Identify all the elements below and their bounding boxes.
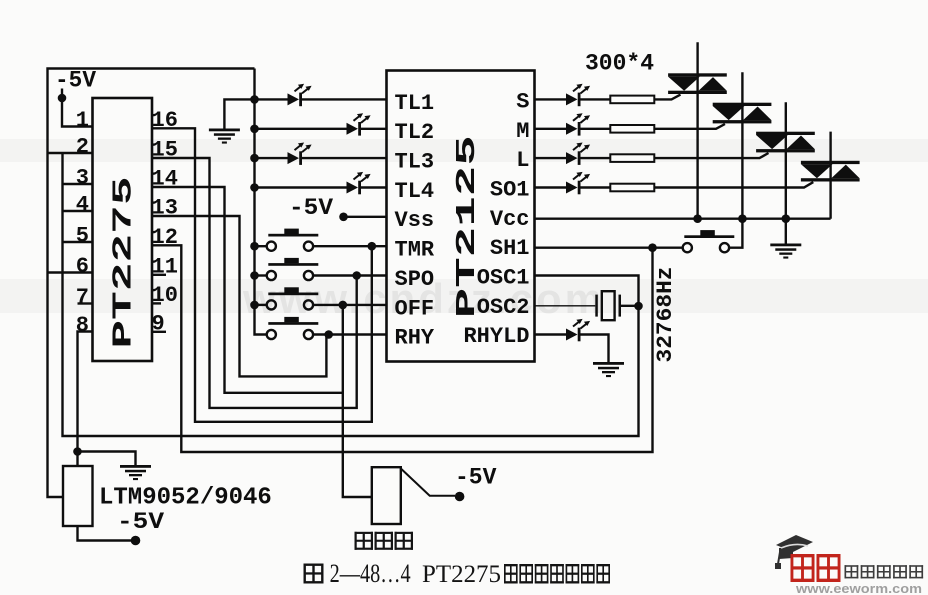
wire buzzer lead to -5V dot bbox=[401, 469, 455, 496]
svg-text:TL4: TL4 bbox=[395, 179, 435, 204]
svg-text:8: 8 bbox=[76, 313, 89, 338]
wire TL4 row left bbox=[255, 186, 347, 188]
svg-text:OFF: OFF bbox=[395, 296, 435, 321]
wire Vcc bus bbox=[535, 217, 831, 219]
wire SO1 row to LED bbox=[535, 186, 567, 188]
resistor R2 300 bbox=[610, 125, 654, 133]
node buzzer -5V terminal bbox=[455, 492, 465, 502]
wire TL2 row right bbox=[360, 128, 387, 130]
svg-text:Vss: Vss bbox=[395, 208, 435, 233]
node bus TL2 bbox=[250, 125, 259, 134]
svg-text:PT2275: PT2275 bbox=[110, 177, 140, 349]
wire pin4 stub bbox=[63, 210, 93, 212]
label buzzer 蜂鸣器 bbox=[355, 532, 414, 550]
svg-text:-5V: -5V bbox=[289, 195, 333, 221]
svg-text:6: 6 bbox=[76, 254, 89, 279]
svg-text:TL2: TL2 bbox=[395, 120, 435, 145]
wire TMR row left bbox=[255, 245, 267, 247]
wire TL3 row right bbox=[301, 157, 387, 159]
node OFF junction bbox=[339, 301, 348, 310]
svg-text:OSC1: OSC1 bbox=[477, 266, 530, 291]
wire R1 to triac1 gate bbox=[654, 95, 680, 100]
triac Q3 lead bbox=[785, 102, 787, 218]
svg-text:L: L bbox=[516, 148, 529, 173]
triac Q1 bbox=[668, 73, 727, 94]
triac Q2 lead bbox=[741, 72, 743, 218]
node SPO junction bbox=[352, 271, 361, 280]
IC U1 PT2275 bbox=[93, 98, 153, 361]
node Vcc x triac3 bbox=[782, 214, 791, 223]
svg-text:OSC2: OSC2 bbox=[477, 295, 530, 320]
node LTM -5V terminal bbox=[131, 536, 141, 546]
svg-text:-5V: -5V bbox=[117, 509, 164, 535]
logo 虫虫 red bbox=[791, 554, 841, 582]
wire TL1 row left bbox=[255, 98, 288, 100]
wire RHYLD to LED bbox=[535, 333, 567, 335]
wire pin8 node to ground stem bbox=[78, 452, 136, 466]
wire pins3-5 bracket + long bus A to crystal node bbox=[63, 153, 639, 436]
wire pin6 of U1 to left rail bbox=[48, 271, 93, 273]
wire pin13 route to RHY node bbox=[152, 216, 326, 376]
LED on TL3 bbox=[288, 143, 312, 165]
svg-text:Vcc: Vcc bbox=[490, 207, 530, 232]
svg-text:TMR: TMR bbox=[395, 238, 435, 263]
LED on L row bbox=[566, 143, 590, 165]
switch TMR bbox=[267, 229, 319, 251]
node bus TL3 bbox=[250, 154, 259, 163]
LED on RHYLD bbox=[566, 319, 590, 341]
node crystal/OSC1 bbox=[634, 302, 643, 311]
switch OFF bbox=[267, 287, 319, 309]
svg-text:RHYLD: RHYLD bbox=[463, 324, 529, 349]
wire Vss bbox=[344, 216, 387, 218]
svg-text:-5V: -5V bbox=[455, 465, 497, 491]
wire SH1 row bbox=[535, 246, 683, 248]
wire M LED to resistor bbox=[580, 128, 611, 130]
wire SH1 switch to Vcc bus bbox=[729, 219, 742, 248]
ground RHYLD bbox=[593, 362, 624, 377]
wire pin9 stub bbox=[152, 331, 166, 333]
caption 图 bbox=[304, 564, 324, 584]
wire RHYLD LED to ground bbox=[580, 335, 609, 363]
wire M row to LED bbox=[535, 128, 567, 130]
node TMR junction bbox=[368, 242, 377, 251]
wire pin8 of U1 down to LTM module bbox=[78, 332, 93, 467]
svg-text:M: M bbox=[516, 119, 529, 144]
LED on S row bbox=[566, 84, 590, 106]
LED on M row bbox=[566, 113, 590, 135]
resistor R4 300 bbox=[610, 184, 654, 192]
node -5V top dot bbox=[58, 94, 67, 103]
node Vcc x triac2 bbox=[738, 214, 747, 223]
wire top and left frame (-5V rail) bbox=[48, 69, 255, 498]
svg-text:TL1: TL1 bbox=[395, 91, 435, 116]
node bus SPO row bbox=[250, 271, 259, 280]
buzzer body bbox=[372, 467, 401, 524]
node SH1 junction bbox=[648, 243, 657, 252]
wire -5V bus vertical x=254.5 down to RHY row bbox=[255, 69, 267, 335]
wire RHY row right bbox=[313, 333, 386, 335]
ground top (near pin16) bbox=[209, 129, 240, 144]
node RHY junction bbox=[324, 330, 333, 339]
wire R4 to triac4 gate bbox=[654, 182, 813, 187]
node bus OFF row bbox=[250, 301, 259, 310]
svg-text:1: 1 bbox=[76, 108, 89, 133]
wire OSC1 to crystal node bbox=[535, 276, 639, 307]
LED on TL4 bbox=[347, 172, 371, 194]
wire pin15 route to SPO node bbox=[152, 158, 357, 408]
wire pin3 stub bbox=[63, 183, 93, 185]
svg-text:TL3: TL3 bbox=[395, 150, 435, 175]
node bus TMR row bbox=[250, 242, 259, 251]
wire pin11 stub bbox=[152, 274, 166, 276]
node Vcc x triac1 bbox=[693, 214, 702, 223]
wire pin12 route long bus B to SH1 node bbox=[152, 245, 653, 452]
wire pin14 route to OFF vertical bbox=[152, 187, 343, 393]
wire S row to LED bbox=[535, 98, 567, 100]
wire SPO row right bbox=[313, 274, 386, 276]
wire L row to LED bbox=[535, 157, 567, 159]
triac Q1 lead bbox=[696, 42, 698, 218]
wire pin1 of U1 bbox=[62, 89, 93, 127]
triac Q4 lead bbox=[829, 132, 831, 219]
IC U2 PT2125 bbox=[387, 71, 535, 362]
triac Q4 bbox=[801, 161, 860, 182]
wire SPO row left bbox=[255, 274, 267, 276]
wire OFF vertical to buzzer bbox=[343, 305, 372, 497]
node Vss supply dot bbox=[339, 213, 348, 222]
wire TL1 row right bbox=[301, 98, 387, 100]
wire pin5 stub bbox=[63, 241, 93, 243]
resistor R3 300 bbox=[610, 154, 654, 162]
wire R2 to triac2 gate bbox=[654, 124, 725, 129]
wire pin16 route to TMR node bbox=[152, 128, 372, 422]
resistor R1 300 bbox=[610, 96, 654, 104]
ground below Vcc bus bbox=[770, 244, 801, 259]
wire ground link to -5V bus bbox=[224, 99, 254, 128]
LED on TL2 bbox=[347, 113, 371, 135]
wire ground stem bbox=[785, 219, 787, 244]
svg-text:4: 4 bbox=[76, 193, 89, 218]
svg-text:www.eeworm.com: www.eeworm.com bbox=[795, 582, 922, 595]
svg-text:LTM9052/9046: LTM9052/9046 bbox=[99, 485, 272, 512]
svg-text:SPO: SPO bbox=[395, 267, 435, 292]
switch SPO bbox=[267, 258, 319, 280]
svg-text:SO1: SO1 bbox=[490, 178, 530, 203]
svg-text:S: S bbox=[516, 89, 529, 114]
wire R3 to triac3 gate bbox=[654, 153, 768, 158]
svg-text:3: 3 bbox=[76, 166, 89, 191]
ground near LTM bbox=[120, 465, 151, 480]
wire TL3 row left bbox=[255, 157, 288, 159]
svg-text:5: 5 bbox=[76, 224, 89, 249]
wire OFF row left bbox=[255, 304, 267, 306]
node bus TL1 bbox=[250, 95, 259, 104]
svg-text:32768Hz: 32768Hz bbox=[653, 267, 678, 363]
triac Q2 bbox=[713, 103, 772, 124]
svg-text:2: 2 bbox=[76, 135, 89, 160]
wire TL4 row right bbox=[360, 186, 387, 188]
node bus TL4 bbox=[250, 183, 259, 192]
wire OFF row right bbox=[313, 304, 386, 306]
LED on SO1 row bbox=[566, 172, 590, 194]
svg-text:2—48…4: 2—48…4 bbox=[330, 559, 411, 588]
wire pin10 stub bbox=[152, 302, 161, 304]
svg-text:SH1: SH1 bbox=[490, 236, 530, 261]
crystal X1 32768Hz bbox=[595, 291, 621, 320]
LED on TL1 bbox=[288, 84, 312, 106]
node pin8/LTM junction bbox=[73, 447, 82, 456]
wire pin7 stub bbox=[78, 302, 93, 304]
svg-text:PT2125: PT2125 bbox=[453, 135, 483, 318]
svg-text:PT2275: PT2275 bbox=[422, 561, 501, 588]
wire pin2 of U1 to left rail bbox=[48, 152, 93, 154]
wire OSC2 to crystal bbox=[535, 305, 596, 307]
svg-text:300*4: 300*4 bbox=[585, 51, 654, 77]
LTM9052 module body bbox=[63, 466, 93, 526]
wire SO1 LED to resistor bbox=[580, 186, 611, 188]
svg-text:RHY: RHY bbox=[395, 326, 435, 351]
caption 典型应用电路图 bbox=[504, 564, 610, 584]
wire LTM bottom lead bbox=[78, 526, 132, 541]
wire TMR row right bbox=[313, 245, 386, 247]
logo graduation cap bbox=[775, 535, 813, 569]
wire crystal to node bbox=[621, 305, 639, 307]
svg-text:7: 7 bbox=[76, 285, 89, 310]
wire L LED to resistor bbox=[580, 157, 611, 159]
triac Q3 bbox=[756, 132, 815, 153]
logo 电子下载站 bbox=[845, 565, 924, 578]
switch RHY bbox=[267, 317, 319, 339]
switch SH1 top right bbox=[683, 230, 735, 252]
wire TL2 row left bbox=[255, 128, 347, 130]
wire S LED to resistor bbox=[580, 98, 611, 100]
